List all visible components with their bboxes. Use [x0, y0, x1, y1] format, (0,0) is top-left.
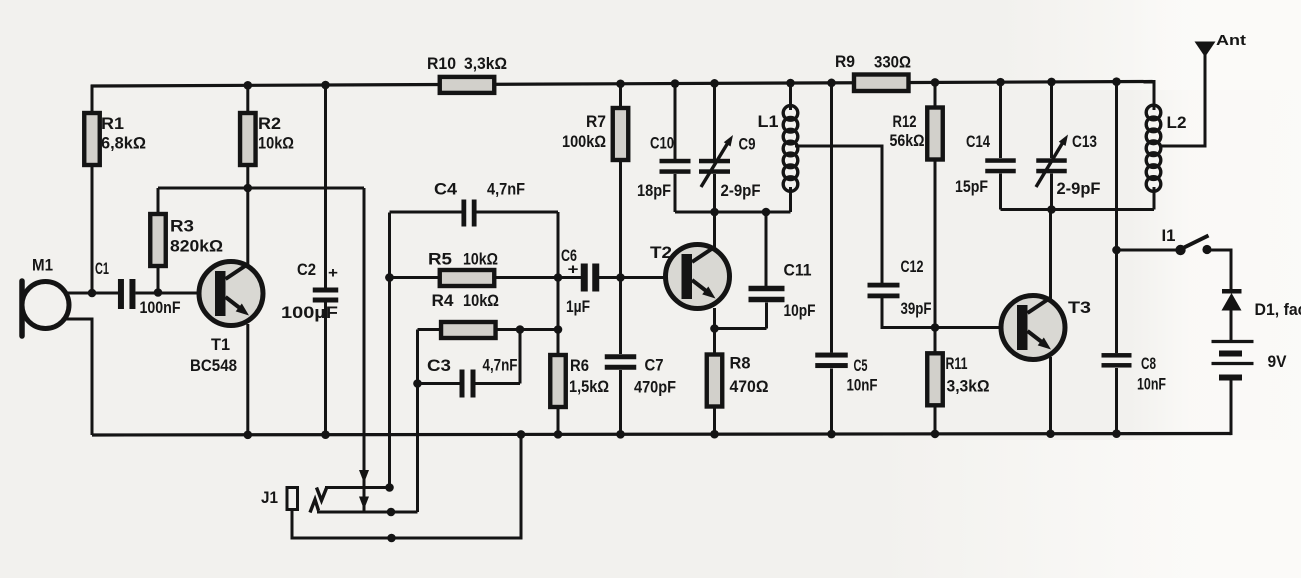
- svg-text:C7: C7: [645, 356, 664, 375]
- wire R8 bottom: [713, 407, 716, 434]
- node R11 gnd: [931, 430, 940, 439]
- wire C3 left: [418, 382, 460, 385]
- wire T1 collector: [246, 188, 249, 266]
- wire R4 left riser: [416, 330, 419, 384]
- wire T1 emitter: [246, 324, 249, 435]
- resistor R6: [550, 355, 566, 407]
- node R3 base junction: [154, 288, 163, 297]
- resistor R7: [613, 108, 629, 160]
- node L1 top: [786, 79, 795, 88]
- node R4-C3 right: [516, 325, 525, 334]
- wire R1 top: [91, 85, 94, 115]
- wire L2 bottom: [1153, 187, 1156, 210]
- node C3 left: [413, 379, 422, 388]
- wire C3 right riser: [519, 330, 522, 384]
- wire R4 line left: [418, 328, 443, 331]
- svg-text:R5: R5: [428, 250, 452, 269]
- capacitor C10: [660, 159, 691, 164]
- svg-text:C4: C4: [434, 180, 458, 199]
- wire power riser: [1115, 80, 1118, 250]
- arrow jack feed 1: [359, 470, 369, 483]
- wire L1 tap: [795, 146, 882, 283]
- wire diode to battery: [1230, 310, 1233, 341]
- switch I1: [1175, 245, 1185, 255]
- svg-text:10nF: 10nF: [1137, 375, 1166, 394]
- wire C14 bottom riser: [999, 174, 1002, 210]
- svg-text:C14: C14: [966, 132, 990, 151]
- wire battery minus: [1230, 381, 1233, 436]
- wire C7 bottom: [619, 370, 622, 434]
- svg-text:C13: C13: [1072, 132, 1097, 151]
- arrow jack feed 2: [359, 497, 369, 510]
- wire C9 bottom riser: [713, 174, 716, 212]
- node R1-mic junction: [88, 289, 97, 298]
- svg-text:R12: R12: [893, 112, 917, 131]
- node switch line left: [1112, 246, 1121, 255]
- svg-text:R11: R11: [946, 354, 968, 373]
- wire R11 bottom: [934, 406, 937, 434]
- resistor R8: [707, 355, 723, 407]
- svg-text:R3: R3: [170, 217, 194, 236]
- svg-text:470Ω: 470Ω: [730, 377, 769, 396]
- node T3 emitter gnd: [1046, 429, 1055, 438]
- node C2 gnd: [321, 430, 330, 439]
- svg-text:R9: R9: [835, 52, 855, 71]
- svg-text:L1: L1: [758, 112, 779, 131]
- svg-text:M1: M1: [32, 256, 53, 275]
- wire C4 right riser: [557, 212, 560, 278]
- node C6-R7 junction: [616, 273, 625, 282]
- diode D1: [1222, 289, 1242, 294]
- svg-text:10kΩ: 10kΩ: [258, 134, 294, 153]
- resistor R3: [150, 214, 166, 266]
- jack contact lower: [310, 500, 319, 513]
- wire C14 top riser: [999, 81, 1002, 158]
- svg-text:C11: C11: [784, 261, 812, 280]
- svg-text:6,8kΩ: 6,8kΩ: [101, 134, 146, 153]
- svg-text:330Ω: 330Ω: [874, 53, 911, 72]
- wire R5 right: [494, 276, 581, 279]
- node C5 gnd: [827, 430, 836, 439]
- svg-text:J1: J1: [261, 488, 278, 507]
- capacitor C14: [985, 158, 1016, 163]
- node C9 top: [710, 79, 719, 88]
- wire R3 top: [157, 188, 160, 214]
- wire C3 right: [476, 382, 521, 385]
- wire C4 left riser: [388, 213, 391, 488]
- svg-text:C1: C1: [95, 259, 109, 278]
- capacitor C11: [749, 286, 785, 292]
- node R7 top: [616, 79, 625, 88]
- node C8 gnd: [1112, 429, 1121, 438]
- wire L1 bottom: [789, 187, 792, 212]
- node sleeve rail: [387, 534, 396, 543]
- capacitor C2: [313, 288, 339, 293]
- wire C8 top riser: [1115, 250, 1118, 353]
- wire tank2 line: [1001, 208, 1155, 211]
- capacitor C6: [581, 264, 588, 292]
- node contact1-riser: [385, 483, 394, 492]
- node C2 top: [321, 81, 330, 90]
- capacitor C1: [118, 279, 124, 309]
- node T2 emitter: [710, 324, 719, 333]
- capacitor C3: [460, 370, 465, 398]
- wire M1 output: [64, 292, 118, 295]
- resistor R5: [440, 270, 495, 286]
- svg-text:+: +: [568, 261, 579, 278]
- svg-text:R1: R1: [101, 114, 124, 133]
- arrow C9 trimmer: [701, 141, 729, 187]
- wire T3 collector riser: [1049, 210, 1052, 300]
- node R4 to C6 riser: [554, 325, 563, 334]
- capacitor C8: [1102, 353, 1132, 358]
- svg-text:1,5kΩ: 1,5kΩ: [569, 377, 609, 396]
- wire T2 emitter riser: [713, 308, 716, 329]
- node C14 top: [996, 78, 1005, 87]
- wire C6 right: [599, 276, 684, 279]
- node T1 emitter gnd: [244, 430, 253, 439]
- svg-text:2-9pF: 2-9pF: [1057, 179, 1101, 198]
- wire switch line: [1117, 249, 1181, 252]
- jack J1 plug: [287, 488, 298, 510]
- resistor R2: [240, 113, 256, 165]
- node R2-T1 collector: [244, 184, 253, 193]
- wire R7 bottom: [619, 161, 622, 278]
- wire R6 bottom: [557, 407, 560, 434]
- wire R5 left: [390, 276, 441, 279]
- svg-text:820kΩ: 820kΩ: [170, 237, 223, 256]
- wire C2 bottom: [324, 303, 327, 435]
- inductor L2: [1146, 105, 1161, 120]
- svg-text:56kΩ: 56kΩ: [890, 131, 925, 150]
- svg-text:Ant: Ant: [1216, 32, 1246, 49]
- svg-text:+: +: [328, 265, 338, 282]
- resistor R4: [441, 322, 496, 338]
- node J1 riser gnd: [517, 430, 526, 439]
- resistor R1: [84, 113, 100, 165]
- svg-text:18pF: 18pF: [637, 181, 671, 200]
- wire R8 top: [713, 329, 716, 355]
- wire C13 top riser: [1050, 80, 1053, 158]
- svg-text:C9: C9: [739, 135, 756, 154]
- wire R2 bottom: [246, 164, 249, 188]
- svg-text:39pF: 39pF: [901, 299, 932, 318]
- wire switch to diode: [1207, 250, 1231, 290]
- svg-text:R7: R7: [586, 112, 606, 131]
- svg-text:100µF: 100µF: [281, 303, 338, 322]
- svg-text:100kΩ: 100kΩ: [562, 132, 606, 151]
- wire L2 tap to antenna: [1160, 56, 1206, 146]
- wire tank1 line: [675, 211, 791, 214]
- wire C13 bottom riser: [1050, 174, 1053, 210]
- svg-text:9V: 9V: [1268, 352, 1288, 371]
- svg-text:C5: C5: [854, 356, 868, 375]
- node R8 gnd: [710, 430, 719, 439]
- wire R11 top: [934, 328, 937, 354]
- wire T3 emitter riser: [1049, 357, 1052, 434]
- node R12 top: [931, 78, 940, 87]
- wire L1 top: [789, 82, 792, 110]
- node T3 collector-C13: [1047, 205, 1056, 214]
- wire C12 bottom: [882, 296, 1023, 328]
- wire R7 top: [619, 82, 622, 107]
- svg-text:100nF: 100nF: [140, 298, 181, 317]
- svg-text:D1, fac: D1, fac: [1255, 300, 1301, 319]
- svg-text:T2: T2: [650, 243, 672, 262]
- microphone M1: [19, 281, 25, 336]
- wire M1 ground: [65, 319, 93, 435]
- svg-text:C3: C3: [427, 356, 451, 375]
- wire R12 top: [934, 81, 937, 107]
- svg-text:T1: T1: [211, 335, 230, 354]
- wire T2 collector riser: [713, 212, 716, 248]
- svg-text:10kΩ: 10kΩ: [463, 250, 498, 269]
- svg-text:L2: L2: [1167, 113, 1187, 132]
- wire C1 to T1 base: [136, 292, 216, 295]
- capacitor C12: [868, 283, 900, 288]
- svg-text:C10: C10: [650, 134, 674, 153]
- svg-text:10kΩ: 10kΩ: [463, 291, 499, 310]
- node power riser top: [1112, 77, 1121, 86]
- node R6 gnd: [554, 430, 563, 439]
- wire C5 bottom riser: [830, 369, 833, 435]
- node R11 top junction: [931, 323, 940, 332]
- svg-text:4,7nF: 4,7nF: [483, 356, 518, 375]
- wire ground rail: [92, 434, 1231, 436]
- jack contact upper: [317, 488, 327, 501]
- wire C9 top riser: [713, 82, 716, 159]
- svg-text:R2: R2: [258, 114, 281, 133]
- svg-text:15pF: 15pF: [955, 177, 988, 196]
- svg-text:I1: I1: [1162, 226, 1176, 245]
- wire emitter to C11: [715, 327, 767, 330]
- wire jack contact2 line: [317, 511, 418, 514]
- wire C11 top riser: [765, 212, 768, 286]
- wire C8 bottom riser: [1115, 368, 1118, 434]
- capacitor C13: [1036, 158, 1067, 163]
- resistor R12: [927, 108, 943, 160]
- svg-text:10pF: 10pF: [784, 301, 816, 320]
- svg-text:4,7nF: 4,7nF: [487, 180, 525, 199]
- wire C5 top riser: [830, 81, 833, 352]
- wire C11 bottom riser: [765, 303, 768, 329]
- wire jack sleeve: [292, 434, 521, 538]
- svg-text:C2: C2: [297, 260, 316, 279]
- wire C4 top right: [477, 211, 559, 214]
- svg-text:2-9pF: 2-9pF: [721, 181, 761, 200]
- node C7 gnd: [616, 430, 625, 439]
- wire L2 top: [1153, 81, 1155, 110]
- wire top supply rail: [91, 81, 1153, 86]
- node C10 top: [671, 79, 680, 88]
- capacitor C7: [605, 354, 637, 359]
- wire R12 bottom: [934, 160, 937, 328]
- resistor R10: [440, 77, 495, 93]
- antenna symbol: [1195, 42, 1216, 58]
- svg-text:10nF: 10nF: [847, 376, 878, 395]
- capacitor C4: [461, 200, 466, 227]
- svg-text:470pF: 470pF: [634, 378, 676, 397]
- wire C7 top: [619, 278, 622, 355]
- wire R2 top: [246, 84, 249, 114]
- svg-text:BC548: BC548: [190, 356, 237, 375]
- arrow C13 trimmer: [1036, 141, 1064, 188]
- resistor R11: [927, 353, 943, 405]
- svg-text:R6: R6: [570, 356, 589, 375]
- node C4 riser R5: [385, 273, 394, 282]
- node C13 top: [1047, 78, 1056, 87]
- wire R6 top: [557, 278, 560, 356]
- wire C4 feed riser: [388, 278, 391, 488]
- wire C4 top left: [390, 211, 462, 214]
- wire C2 top: [324, 84, 327, 289]
- node C9-T2 collector: [710, 208, 719, 217]
- node R5 left: [385, 273, 394, 282]
- svg-text:T3: T3: [1068, 298, 1091, 317]
- svg-text:3,3kΩ: 3,3kΩ: [464, 54, 507, 73]
- wire R1 bottom: [91, 164, 94, 293]
- wire jack contact1 line: [325, 486, 390, 489]
- wire 188-line: [158, 187, 364, 190]
- svg-text:C12: C12: [901, 257, 924, 276]
- transistor T2: [666, 245, 730, 309]
- resistor R9: [854, 75, 909, 92]
- wire R3 bottom: [157, 266, 160, 293]
- wire C10 top riser: [674, 82, 677, 159]
- svg-text:R10: R10: [427, 54, 456, 73]
- wire R4 line right: [495, 328, 559, 331]
- transistor T1: [199, 262, 263, 326]
- capacitor C5: [815, 353, 848, 358]
- node C11 top: [762, 208, 771, 217]
- svg-text:R4: R4: [432, 291, 455, 310]
- transistor T3: [1001, 296, 1065, 360]
- wire C3 left riser down: [416, 384, 419, 513]
- svg-text:C8: C8: [1141, 354, 1156, 373]
- capacitor C9: [699, 159, 730, 164]
- node R5 right: [554, 273, 563, 282]
- wire C10 bottom riser: [674, 174, 677, 212]
- svg-text:3,3kΩ: 3,3kΩ: [947, 377, 990, 396]
- wire 188 corner down: [363, 188, 366, 512]
- paper white right margin: [1130, 0, 1301, 578]
- svg-text:R8: R8: [730, 354, 751, 373]
- svg-text:1µF: 1µF: [566, 297, 590, 316]
- node contact2 mid: [387, 508, 396, 517]
- battery 9V: [1212, 340, 1254, 343]
- node R2 top: [244, 81, 253, 90]
- inductor L1: [783, 106, 798, 121]
- node C5 top: [827, 79, 836, 88]
